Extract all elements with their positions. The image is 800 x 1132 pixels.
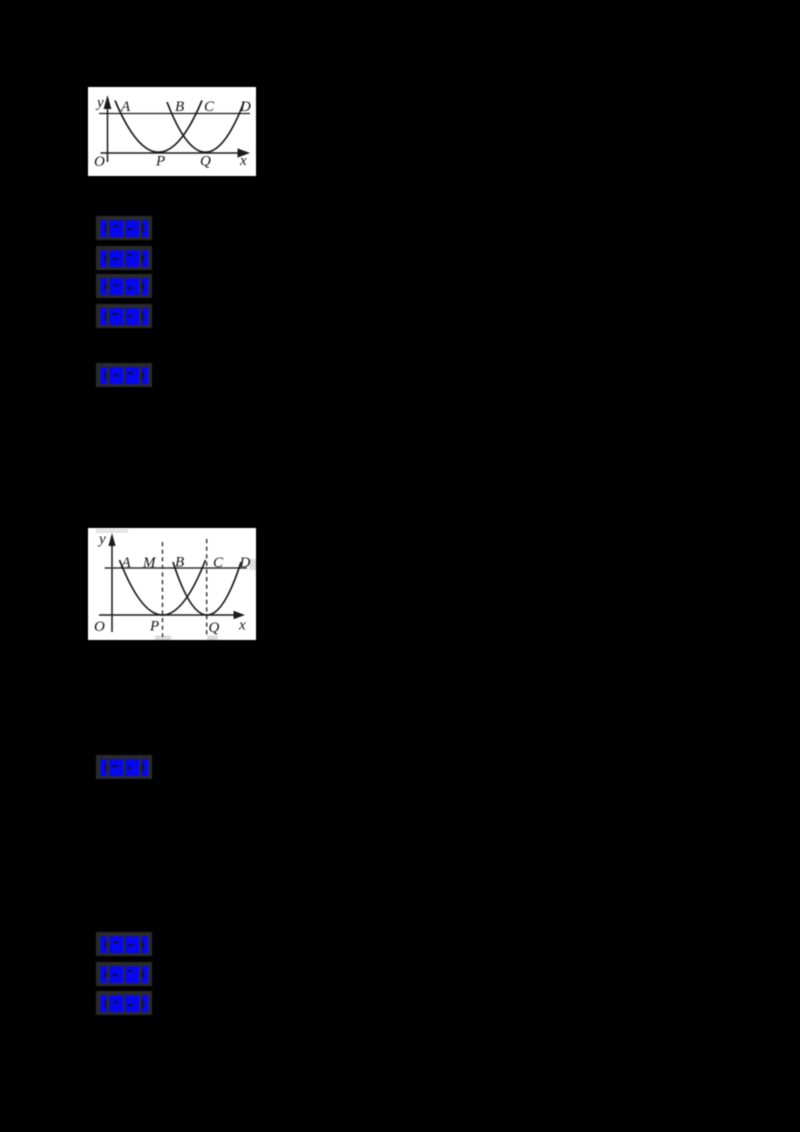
x-axis	[101, 148, 251, 157]
blue tag 2	[96, 246, 152, 270]
svg-text:A: A	[120, 99, 131, 115]
light gray patch bottom right	[207, 636, 218, 641]
blue tag 5	[96, 363, 152, 387]
svg-text:A: A	[121, 555, 132, 571]
blue tag 6	[96, 755, 152, 779]
horizontal line through A B C D	[99, 113, 250, 115]
svg-text:D: D	[239, 555, 251, 571]
x-axis	[99, 611, 245, 620]
parabola with vertex P	[120, 560, 206, 615]
parabola with vertex P	[115, 101, 202, 153]
svg-text:P: P	[155, 154, 165, 170]
svg-text:C: C	[204, 99, 215, 115]
svg-text:P: P	[149, 619, 159, 635]
y-axis	[108, 533, 115, 632]
svg-text:x: x	[239, 153, 247, 169]
blue tag 4	[96, 304, 152, 328]
blue tag 1	[96, 216, 152, 240]
figure 1: two parabolas tangent to x-axis at P and Q, horizontal secant line A B C D	[88, 87, 256, 176]
horizontal line through A M B C D	[105, 567, 248, 569]
parabola with vertex Q	[173, 562, 241, 615]
light gray patch bottom left	[155, 636, 171, 641]
blue tag 3	[96, 274, 152, 298]
svg-text:Q: Q	[200, 154, 211, 170]
figure 2: two parabolas with dashed symmetry axes through P and Q, secant line A M B C D	[88, 528, 256, 640]
svg-text:Q: Q	[209, 620, 220, 636]
svg-text:B: B	[175, 99, 184, 115]
svg-text:y: y	[97, 532, 106, 548]
blue tag 7	[96, 932, 152, 956]
dashed axis of symmetry through Q	[206, 539, 208, 637]
blue tag 8	[96, 962, 152, 986]
light gray patch right edge	[249, 559, 256, 570]
parabola with vertex Q	[167, 102, 244, 152]
y-axis	[104, 95, 112, 162]
dashed axis of symmetry through P	[162, 542, 164, 637]
svg-text:y: y	[95, 95, 104, 111]
svg-text:O: O	[94, 619, 105, 635]
white background	[88, 87, 256, 176]
light gray strip top	[96, 529, 128, 533]
svg-text:C: C	[213, 555, 224, 571]
svg-text:D: D	[239, 99, 251, 115]
blue tag 9	[96, 991, 152, 1015]
svg-text:x: x	[238, 618, 246, 634]
svg-text:O: O	[94, 154, 105, 170]
white background	[88, 528, 256, 640]
svg-text:B: B	[175, 555, 184, 571]
svg-text:M: M	[142, 555, 157, 571]
